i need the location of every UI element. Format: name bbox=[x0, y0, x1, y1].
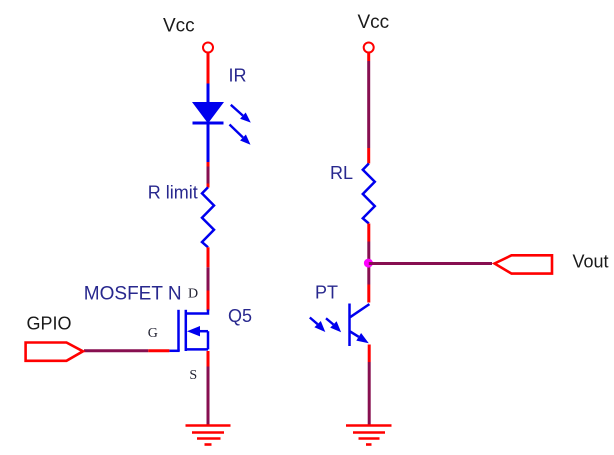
node junction dot bbox=[364, 259, 373, 268]
svg-text:RL: RL bbox=[330, 163, 353, 183]
pin stub (red) R limit top bbox=[207, 184, 210, 188]
svg-text:GPIO: GPIO bbox=[27, 313, 72, 333]
phototransistor PT body bbox=[350, 304, 370, 347]
LED D1 IR body bbox=[193, 103, 224, 124]
pin stub (red) Q5 drain bbox=[207, 291, 210, 311]
wire GPIO to Q5 gate bbox=[84, 349, 148, 352]
wire RL to node bbox=[367, 242, 370, 285]
svg-text:Vout: Vout bbox=[573, 251, 609, 271]
LED D1 cathode lead bbox=[207, 123, 210, 162]
pin stub (red) PT collector bbox=[367, 285, 370, 303]
pin stub (red) R limit bottom bbox=[207, 247, 210, 267]
ground (left) bbox=[186, 426, 231, 445]
wire LED to R limit bbox=[207, 167, 210, 184]
svg-text:R limit: R limit bbox=[148, 182, 198, 202]
wire R limit to Q5 drain bbox=[207, 267, 210, 290]
svg-text:PT: PT bbox=[315, 283, 338, 303]
svg-text:MOSFET N: MOSFET N bbox=[84, 283, 182, 304]
pin stub (red) Q5 source bbox=[207, 351, 210, 367]
connector Vout bbox=[495, 255, 553, 273]
pin stub (red) below right Vcc terminal bbox=[367, 53, 370, 62]
pin stub (red) RL bottom bbox=[367, 224, 370, 242]
ground (right) bbox=[346, 426, 392, 445]
LED D1 IR anode lead bbox=[207, 84, 210, 104]
resistor R limit bbox=[202, 187, 214, 247]
svg-text:S: S bbox=[189, 368, 197, 383]
connector GPIO bbox=[26, 343, 83, 361]
wire node to Vout bbox=[369, 262, 492, 265]
svg-text:G: G bbox=[148, 326, 158, 341]
resistor RL bbox=[363, 164, 375, 224]
pin stub (red) LED cathode bbox=[207, 162, 210, 167]
wire Q5 source to ground bbox=[207, 367, 210, 426]
svg-text:Q5: Q5 bbox=[228, 306, 252, 326]
pin stub (red) Q5 gate bbox=[148, 349, 169, 352]
LED D1 IR light emission arrows bbox=[230, 105, 251, 145]
wire Vcc to RL bbox=[367, 61, 370, 148]
svg-text:Vcc: Vcc bbox=[358, 12, 390, 33]
svg-text:D: D bbox=[188, 287, 198, 302]
wire Vcc terminal to LED anode (red stub) bbox=[207, 53, 210, 84]
power terminal Vcc (left) bbox=[203, 43, 213, 53]
wire PT emitter to ground bbox=[368, 362, 371, 425]
power terminal Vcc (right) bbox=[364, 43, 374, 53]
pin stub (red) PT emitter bbox=[368, 345, 371, 363]
svg-text:Vcc: Vcc bbox=[163, 15, 195, 36]
svg-text:IR: IR bbox=[229, 66, 247, 86]
pin stub (red) RL top bbox=[367, 148, 370, 164]
transistor Q5 MOSFET N body bbox=[169, 310, 208, 352]
phototransistor PT light arrows bbox=[310, 318, 341, 333]
